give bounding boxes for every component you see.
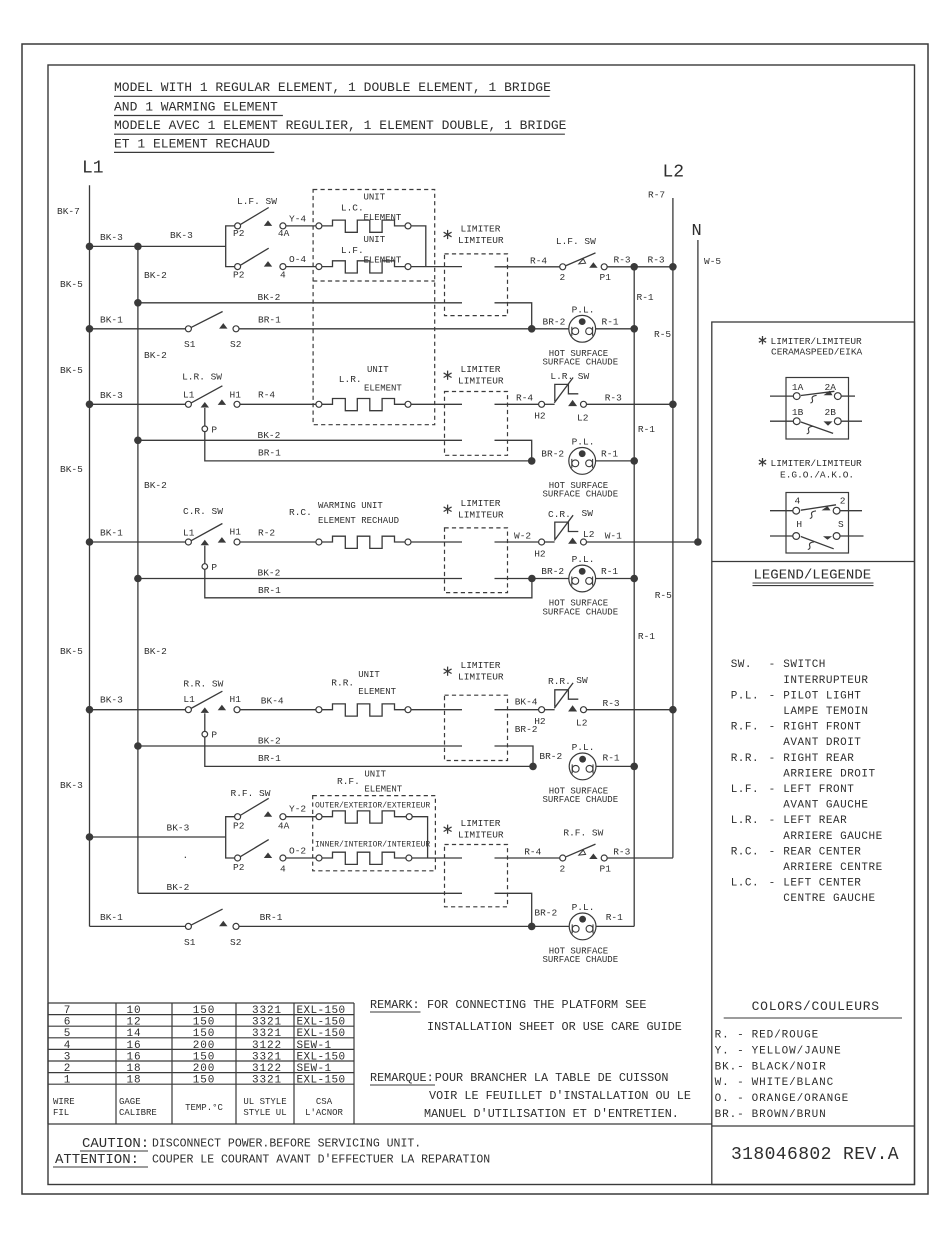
svg-text:PILOT LIGHT: PILOT LIGHT	[783, 690, 861, 702]
svg-text:COLORS/COULEURS: COLORS/COULEURS	[752, 999, 880, 1014]
limiter contact row6 (gap)	[495, 857, 560, 859]
svg-text:UNIT: UNIT	[358, 670, 380, 680]
wire element to limiter row4	[411, 541, 462, 543]
svg-text:R-1: R-1	[606, 912, 623, 923]
svg-text:FIL: FIL	[53, 1108, 69, 1118]
svg-text:R-1: R-1	[603, 753, 620, 764]
element L.C. (left center unit element)	[316, 223, 322, 229]
svg-text:BK-2: BK-2	[258, 292, 281, 303]
svg-text:R-4: R-4	[530, 256, 547, 267]
svg-text:L.C.: L.C.	[731, 878, 759, 890]
wire R-1 PL3	[596, 578, 635, 580]
svg-text:LIMITEUR: LIMITEUR	[458, 376, 504, 387]
svg-text:WHITE/BLANC: WHITE/BLANC	[752, 1077, 835, 1089]
svg-text:Y. -: Y. -	[715, 1045, 745, 1057]
svg-text:CENTRE GAUCHE: CENTRE GAUCHE	[783, 893, 875, 905]
pin 4A contact	[280, 223, 286, 229]
svg-text:R-7: R-7	[648, 190, 665, 201]
wire BK-4 row5	[240, 709, 316, 711]
svg-text:BK-5: BK-5	[60, 365, 83, 376]
svg-text:O-4: O-4	[289, 254, 306, 265]
limiter contact row5 (gap)	[495, 709, 539, 711]
svg-text:R-4: R-4	[258, 390, 275, 401]
svg-text:-: -	[769, 878, 776, 890]
svg-text:4: 4	[280, 864, 286, 875]
svg-text:H1: H1	[230, 527, 242, 538]
pin P contact	[204, 546, 206, 564]
wire R-3 to L2	[607, 266, 673, 268]
pilot light P.L. 3	[569, 565, 596, 592]
svg-text:L1: L1	[183, 528, 195, 539]
pilot light P.L. 1	[569, 315, 596, 342]
svg-text:150: 150	[193, 1017, 216, 1029]
wire R-4 row3	[240, 403, 316, 405]
svg-text:RIGHT REAR: RIGHT REAR	[783, 753, 854, 765]
svg-text:BK-4: BK-4	[515, 697, 538, 708]
switch S1/S2 bottom	[185, 923, 191, 929]
svg-text:LAMPE TEMOIN: LAMPE TEMOIN	[783, 706, 868, 718]
svg-text:UL STYLE: UL STYLE	[243, 1097, 286, 1107]
pin 1B	[793, 418, 800, 425]
svg-text:P: P	[211, 562, 217, 573]
wire R-3 row5	[587, 709, 673, 711]
svg-text:P: P	[211, 425, 217, 436]
svg-text:S1: S1	[184, 339, 196, 350]
svg-text:P.L.: P.L.	[731, 690, 759, 702]
svg-text:BR-2: BR-2	[543, 317, 566, 328]
svg-text:SW: SW	[582, 508, 594, 519]
limiter contact row1 (gap)	[495, 266, 560, 268]
pin P contact	[204, 713, 206, 731]
wire BK-2 row6	[138, 892, 462, 894]
switch L.F. SW pole P2 top	[235, 223, 241, 229]
svg-text:ELEMENT: ELEMENT	[364, 785, 402, 795]
switch L.R. SW right thermal	[539, 401, 545, 407]
svg-text:P1: P1	[600, 272, 612, 283]
svg-text:P.L.: P.L.	[572, 436, 595, 447]
junction L1/BK-3 row1	[86, 243, 94, 251]
svg-text:ELEMENT RECHAUD: ELEMENT RECHAUD	[318, 516, 399, 526]
svg-text:SURFACE CHAUDE: SURFACE CHAUDE	[543, 795, 619, 805]
svg-text:EXL-150: EXL-150	[297, 1005, 346, 1017]
svg-text:ARRIERE CENTRE: ARRIERE CENTRE	[783, 862, 882, 874]
svg-text:-: -	[769, 846, 776, 858]
svg-text:C.R. SW: C.R. SW	[183, 506, 223, 517]
svg-text:LIMITER/LIMITEUR: LIMITER/LIMITEUR	[771, 336, 863, 347]
ceramaspeed blade B	[801, 422, 833, 433]
pin 2B	[834, 418, 841, 425]
svg-text:H2: H2	[534, 411, 546, 422]
svg-text:AVANT GAUCHE: AVANT GAUCHE	[783, 800, 868, 812]
legend divider 2	[712, 1125, 915, 1127]
svg-text:STYLE UL: STYLE UL	[243, 1108, 286, 1118]
svg-text:P.L.: P.L.	[572, 554, 595, 565]
svg-text:150: 150	[193, 1005, 216, 1017]
svg-text:SURFACE CHAUDE: SURFACE CHAUDE	[543, 490, 619, 500]
ego triangle top	[822, 506, 831, 510]
svg-text:R.R.: R.R.	[548, 676, 571, 687]
svg-text:L2: L2	[583, 529, 595, 540]
junction R-3/L2 rail row5	[669, 706, 677, 714]
junction R-1 chain PL3	[630, 575, 638, 583]
svg-text:LEGEND/LEGENDE: LEGEND/LEGENDE	[754, 568, 872, 584]
svg-text:BR-2: BR-2	[541, 449, 564, 460]
element L.R. (left rear unit element)	[316, 401, 322, 407]
svg-text:R.C.: R.C.	[731, 846, 759, 858]
svg-text:LIMITER: LIMITER	[461, 223, 501, 234]
junction BK-2 bus row3	[134, 437, 142, 445]
switch L.F. SW right (2/P1)	[560, 264, 566, 270]
svg-text:SW: SW	[578, 371, 590, 382]
wire R-3 row3	[587, 403, 673, 405]
svg-text:LEFT REAR: LEFT REAR	[783, 815, 847, 827]
junction L1 row4	[86, 538, 94, 546]
svg-text:LIMITEUR: LIMITEUR	[458, 235, 504, 246]
svg-text:R-1: R-1	[601, 449, 618, 460]
svg-text:OUTER/EXTERIOR/EXTERIEUR: OUTER/EXTERIOR/EXTERIEUR	[315, 802, 430, 811]
svg-text:DISCONNECT POWER.BEFORE SERVIC: DISCONNECT POWER.BEFORE SERVICING UNIT.	[152, 1138, 421, 1151]
svg-text:2: 2	[64, 1063, 72, 1075]
svg-text:3321: 3321	[252, 1005, 282, 1017]
limiter contact row4 (gap)	[495, 541, 539, 543]
switch L.F. SW pole P2 bottom	[235, 264, 241, 270]
junction BK-2 bus top	[134, 243, 142, 251]
junction R-3/L2 rail	[669, 263, 677, 271]
wire BK-1 row4	[90, 541, 186, 543]
svg-text:7: 7	[64, 1005, 72, 1017]
svg-text:UNIT: UNIT	[367, 365, 389, 375]
svg-text:INNER/INTERIOR/INTERIEUR: INNER/INTERIOR/INTERIEUR	[315, 841, 430, 850]
svg-text:L.R. SW: L.R. SW	[182, 372, 222, 383]
limiter box row4	[445, 528, 508, 593]
svg-text:CSA: CSA	[316, 1097, 333, 1107]
svg-text:P.L.: P.L.	[572, 742, 595, 753]
svg-text:R-3: R-3	[603, 698, 620, 709]
ceramaspeed blade A	[801, 391, 835, 395]
element box divider	[313, 280, 435, 282]
svg-text:200: 200	[193, 1063, 216, 1075]
svg-text:3321: 3321	[252, 1075, 282, 1087]
BK-2 bus vertical	[137, 246, 139, 893]
svg-text:W. -: W. -	[715, 1077, 745, 1089]
svg-text:R-3: R-3	[605, 393, 622, 404]
svg-text:CAUTION:: CAUTION:	[82, 1136, 149, 1152]
limiter ceramaspeed box	[786, 378, 849, 440]
limiter box row3	[445, 392, 508, 456]
svg-text:-: -	[769, 753, 776, 765]
svg-text:P1: P1	[600, 864, 612, 875]
pin H	[793, 533, 800, 540]
svg-text:3122: 3122	[252, 1063, 282, 1075]
junction BK-2 bus row1	[134, 299, 142, 307]
svg-text:MANUEL D'UTILISATION ET D'ENTR: MANUEL D'UTILISATION ET D'ENTRETIEN.	[424, 1107, 679, 1121]
svg-text:14: 14	[126, 1028, 141, 1040]
svg-text:L2: L2	[576, 718, 588, 729]
wire R-2 row4	[240, 541, 316, 543]
svg-text:E.G.O./A.K.O.: E.G.O./A.K.O.	[780, 470, 854, 481]
svg-text:ARRIERE DROIT: ARRIERE DROIT	[783, 768, 875, 780]
svg-text:R-1: R-1	[637, 292, 654, 303]
svg-text:WIRE: WIRE	[53, 1097, 75, 1107]
svg-text:POUR BRANCHER LA TABLE DE CUIS: POUR BRANCHER LA TABLE DE CUISSON	[435, 1071, 669, 1085]
svg-text:INTERRUPTEUR: INTERRUPTEUR	[783, 675, 868, 687]
wire W-1 row4	[587, 541, 698, 543]
svg-text:MODELE AVEC 1 ELEMENT REGULIER: MODELE AVEC 1 ELEMENT REGULIER, 1 ELEMEN…	[114, 118, 567, 133]
wire O-2	[286, 857, 316, 859]
svg-text:BK-5: BK-5	[60, 646, 83, 657]
svg-text:BK-1: BK-1	[100, 912, 123, 923]
svg-text:BR-1: BR-1	[258, 753, 281, 764]
wire BK-1 bottom row	[90, 925, 186, 927]
pilot light P.L. 4	[569, 753, 596, 780]
wire element to limiter row5	[411, 709, 462, 711]
wire R-1 PL1	[596, 328, 635, 330]
wire BK-1 row2	[90, 328, 186, 330]
svg-text:RED/ROUGE: RED/ROUGE	[752, 1030, 820, 1042]
svg-text:ELEMENT: ELEMENT	[358, 687, 396, 697]
svg-text:L.F. SW: L.F. SW	[556, 236, 596, 247]
svg-text:C.R.: C.R.	[548, 509, 571, 520]
switch S1/S2 row2	[185, 326, 191, 332]
wire P to BR-1 row4	[205, 569, 532, 598]
wire R-1 PL4	[596, 765, 634, 767]
svg-text:O-2: O-2	[289, 846, 306, 857]
svg-text:BK-1: BK-1	[100, 315, 123, 326]
svg-text:BK-3: BK-3	[100, 390, 123, 401]
svg-text:VOIR LE FEUILLET D'INSTALLATIO: VOIR LE FEUILLET D'INSTALLATION OU LE	[429, 1089, 691, 1103]
limiter ego stubs	[770, 510, 793, 512]
svg-text:L2: L2	[577, 413, 589, 424]
legend divider 1	[712, 561, 915, 563]
svg-text:BK-5: BK-5	[60, 279, 83, 290]
element R.F. dashed box	[313, 796, 436, 871]
svg-text:BR-2: BR-2	[539, 751, 562, 762]
element R.C. warming element	[316, 539, 322, 545]
limiter BK-2 contact row3 (gap)	[495, 440, 532, 461]
svg-text:L1: L1	[183, 390, 195, 401]
svg-text:-: -	[769, 815, 776, 827]
svg-text:EXL-150: EXL-150	[297, 1075, 346, 1087]
svg-text:R-4: R-4	[516, 393, 533, 404]
svg-text:P2: P2	[233, 228, 245, 239]
wire element to limiter row3	[411, 403, 462, 405]
junction BK-2 bus row4	[134, 575, 142, 583]
svg-text:18: 18	[126, 1063, 141, 1075]
svg-text:L.R.: L.R.	[550, 371, 573, 382]
svg-text:BR-1: BR-1	[260, 912, 283, 923]
L2 rail R-5/R-7	[672, 198, 674, 858]
svg-text:LIMITER/LIMITEUR: LIMITER/LIMITEUR	[771, 458, 863, 469]
limiter BK-2 contact row4 (gap)	[495, 578, 569, 580]
wire to limiter row6	[412, 857, 462, 859]
svg-text:12: 12	[126, 1017, 141, 1029]
wire BK-3 row6	[90, 836, 226, 838]
svg-text:BLACK/NOIR: BLACK/NOIR	[752, 1061, 827, 1073]
svg-text:BR.-: BR.-	[715, 1109, 745, 1121]
junction BR-2 PL3	[528, 575, 536, 583]
svg-text:2B: 2B	[825, 407, 837, 418]
R-1 chain vertical	[633, 267, 635, 927]
legend outer box	[712, 322, 915, 1185]
svg-text:R-1: R-1	[602, 317, 619, 328]
svg-text:L1: L1	[82, 159, 104, 179]
svg-text:UNIT: UNIT	[364, 235, 386, 245]
svg-text:R. -: R. -	[715, 1030, 745, 1042]
svg-text:ET 1 ELEMENT RECHAUD: ET 1 ELEMENT RECHAUD	[114, 136, 270, 151]
svg-text:L.R.: L.R.	[339, 374, 362, 385]
junction R-3/R-1 chain	[630, 263, 638, 271]
svg-text:2: 2	[560, 864, 566, 875]
svg-text:SW.: SW.	[731, 659, 752, 671]
svg-text:LIMITER: LIMITER	[461, 660, 501, 671]
junction L1 row3	[86, 401, 94, 409]
limiter box row5	[445, 695, 508, 760]
svg-text:ATTENTION:: ATTENTION:	[55, 1152, 139, 1168]
svg-text:W-1: W-1	[605, 531, 622, 542]
svg-text:BR-1: BR-1	[258, 447, 281, 458]
svg-text:BK-4: BK-4	[261, 696, 284, 707]
svg-text:3321: 3321	[252, 1051, 282, 1063]
svg-text:BK-3: BK-3	[60, 780, 83, 791]
junction R-1 chain PL4	[630, 763, 638, 771]
svg-text:BROWN/BRUN: BROWN/BRUN	[752, 1109, 827, 1121]
svg-text:4: 4	[795, 496, 801, 507]
svg-text:SWITCH: SWITCH	[783, 659, 826, 671]
svg-text:AND 1 WARMING ELEMENT: AND 1 WARMING ELEMENT	[114, 99, 278, 114]
svg-text:YELLOW/JAUNE: YELLOW/JAUNE	[752, 1045, 842, 1057]
svg-text:-: -	[769, 784, 776, 796]
svg-text:LIMITER: LIMITER	[461, 818, 501, 829]
junction BR-2 PL1	[528, 325, 536, 333]
svg-text:SEW-1: SEW-1	[297, 1063, 332, 1075]
pin 4 contact	[280, 264, 286, 270]
junction L1 BK-1 row2	[86, 325, 94, 333]
junction L1 row6	[86, 833, 94, 841]
svg-text:REMARK:: REMARK:	[370, 998, 420, 1012]
svg-text:EXL-150: EXL-150	[297, 1028, 346, 1040]
svg-text:BK-2: BK-2	[144, 270, 167, 281]
wire element outputs join	[411, 226, 426, 267]
L1 rail	[89, 185, 91, 926]
svg-text:2A: 2A	[825, 382, 837, 393]
svg-text:BK-2: BK-2	[258, 735, 281, 746]
svg-text:2: 2	[840, 496, 846, 507]
limiter BK-2 contact row6 (gap)	[495, 893, 532, 926]
switch R.F. SW right (2/P1)	[560, 855, 566, 861]
svg-text:H: H	[796, 519, 802, 530]
element L.F. (left front unit element)	[316, 264, 322, 270]
switch R.F. SW bracket	[226, 817, 235, 858]
svg-text:S2: S2	[230, 937, 242, 948]
svg-text:R.R.: R.R.	[331, 678, 354, 689]
wire Y-2	[286, 816, 316, 818]
svg-text:S2: S2	[230, 339, 242, 350]
svg-text:H1: H1	[230, 694, 242, 705]
svg-text:200: 200	[193, 1040, 216, 1052]
svg-text:L2: L2	[663, 163, 685, 183]
wire BR-1 bottom	[239, 925, 569, 927]
svg-text:S: S	[838, 519, 844, 530]
svg-text:H1: H1	[230, 390, 242, 401]
svg-text:MODEL WITH 1 REGULAR ELEMENT,: MODEL WITH 1 REGULAR ELEMENT, 1 DOUBLE E…	[114, 80, 551, 95]
svg-text:R-1: R-1	[638, 631, 655, 642]
svg-text:4A: 4A	[278, 228, 290, 239]
junction BK-2 bus row5	[134, 742, 142, 750]
junction BR-2 PL4	[529, 763, 537, 771]
switch R.F. SW pole P2 bottom	[235, 855, 241, 861]
wire element outputs join row6	[412, 817, 427, 858]
limiter label row6	[447, 825, 449, 834]
svg-text:BK-3: BK-3	[100, 232, 123, 243]
svg-text:LIMITEUR: LIMITEUR	[458, 672, 504, 683]
wire BR-1 row2	[239, 328, 569, 330]
svg-text:BK-2: BK-2	[258, 568, 281, 579]
svg-text:-: -	[769, 722, 776, 734]
limiter label row3	[447, 371, 449, 380]
wire O-4	[286, 266, 316, 268]
svg-text:3122: 3122	[252, 1040, 282, 1052]
junction BR-2 PL5	[528, 923, 536, 931]
svg-text:1A: 1A	[792, 382, 804, 393]
svg-text:L.F. SW: L.F. SW	[237, 196, 277, 207]
svg-text:R.F. SW: R.F. SW	[231, 788, 271, 799]
wire P to BR-1 row5	[205, 737, 533, 766]
wire BK-3 row5	[90, 709, 186, 711]
svg-text:BK-2: BK-2	[144, 646, 167, 657]
svg-text:GAGE: GAGE	[119, 1097, 141, 1107]
svg-text:3321: 3321	[252, 1017, 282, 1029]
wire P to BR-1 row3	[205, 432, 532, 461]
pin P contact	[204, 408, 206, 426]
svg-text:REAR CENTER: REAR CENTER	[783, 846, 861, 858]
switch C.R. SW left	[185, 539, 191, 545]
svg-text:LIMITEUR: LIMITEUR	[458, 510, 504, 521]
svg-text:6: 6	[64, 1017, 72, 1029]
svg-text:CALIBRE: CALIBRE	[119, 1108, 157, 1118]
svg-text:BK-2: BK-2	[144, 480, 167, 491]
switch C.R. SW right thermal	[539, 539, 545, 545]
wire R-1 PL2	[596, 460, 635, 462]
element R.R. (right rear unit element)	[316, 707, 322, 713]
svg-text:LIMITEUR: LIMITEUR	[458, 830, 504, 841]
svg-text:BK-7: BK-7	[57, 206, 80, 217]
svg-text:L.C.: L.C.	[341, 203, 364, 214]
svg-text:18: 18	[126, 1075, 141, 1087]
svg-text:R.F. SW: R.F. SW	[563, 827, 603, 838]
svg-text:LEFT FRONT: LEFT FRONT	[783, 784, 854, 796]
svg-text:SEW-1: SEW-1	[297, 1040, 332, 1052]
svg-text:R.R. SW: R.R. SW	[183, 679, 223, 690]
svg-text:Y-4: Y-4	[289, 214, 306, 225]
junction BR-2 PL2	[528, 457, 536, 465]
svg-text:16: 16	[126, 1051, 141, 1063]
svg-text:10: 10	[126, 1005, 141, 1017]
svg-text:EXL-150: EXL-150	[297, 1017, 346, 1029]
svg-text:SURFACE CHAUDE: SURFACE CHAUDE	[543, 607, 619, 617]
svg-text:L.R.: L.R.	[731, 815, 759, 827]
ego squiggle top	[810, 511, 816, 519]
ego blade top	[801, 505, 836, 510]
svg-text:UNIT: UNIT	[364, 193, 386, 203]
svg-text:BK.-: BK.-	[715, 1061, 745, 1073]
switch L.R. SW left	[185, 401, 191, 407]
svg-text:P2: P2	[233, 862, 245, 873]
svg-text:L1: L1	[183, 694, 195, 705]
svg-text:BK-2: BK-2	[258, 430, 281, 441]
limiter contact BK-2 row1 (gap)	[495, 303, 532, 329]
svg-text:W-2: W-2	[514, 531, 531, 542]
svg-text:BR-1: BR-1	[258, 315, 281, 326]
